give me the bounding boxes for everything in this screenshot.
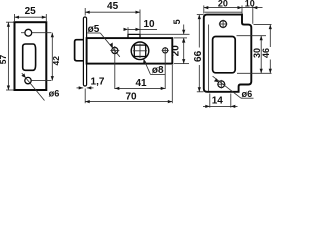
stop tab on top of case	[128, 34, 140, 38]
strike plate outline	[204, 15, 252, 92]
latch case body	[87, 38, 173, 64]
dimension 57 (left height)	[0, 22, 14, 90]
svg-text:25: 25	[25, 6, 37, 17]
dimension 45 (backset)	[85, 1, 140, 34]
svg-text:20: 20	[171, 45, 182, 57]
dimension 66 (strike height)	[193, 15, 204, 92]
svg-text:ø6: ø6	[242, 89, 253, 99]
ø5 crosshair	[110, 46, 119, 56]
dimension 25 (top width)	[15, 6, 47, 21]
svg-text:1,7: 1,7	[91, 77, 105, 88]
spindle bore circle ø8	[131, 42, 149, 60]
svg-text:5: 5	[172, 19, 182, 24]
dimension 46 (tongue top to opening bottom)	[254, 25, 272, 74]
bend line vertical	[208, 25, 210, 92]
label ø5 with leader	[87, 24, 120, 57]
dimension 41 (hole spacing)	[115, 54, 165, 90]
bend line top	[205, 11, 243, 13]
svg-text:66: 66	[193, 50, 204, 62]
svg-text:41: 41	[135, 78, 147, 89]
dimension 30 (opening height)	[237, 36, 272, 74]
latch bolt head	[75, 40, 84, 61]
label ø6 (strike)	[242, 89, 253, 99]
dimension 70 (overall length)	[85, 65, 172, 103]
faceplate plate outline	[15, 22, 47, 90]
dimension 10 (tab width)	[124, 19, 158, 34]
bottom screw hole	[217, 80, 226, 89]
spindle crosshair	[133, 44, 147, 58]
top dimensions 20 and 10	[204, 0, 263, 24]
top screw hole	[25, 29, 32, 36]
latch bolt opening	[23, 44, 36, 70]
screw hole ø5	[112, 47, 118, 53]
bottom screw hole	[25, 77, 31, 83]
rear hole crosshair	[162, 47, 169, 54]
label ø6	[49, 89, 60, 99]
top screw hole	[219, 20, 228, 29]
dimension 5 (tab height)	[140, 19, 190, 42]
svg-text:ø5: ø5	[88, 24, 100, 35]
svg-text:14: 14	[212, 95, 224, 106]
dimension 20 (case height)	[171, 38, 189, 64]
dimension 42 (hole to hole)	[51, 33, 62, 81]
svg-text:10: 10	[143, 19, 155, 30]
leader ø6 (strike)	[213, 76, 254, 98]
svg-text:45: 45	[107, 1, 119, 12]
svg-text:46: 46	[261, 48, 271, 58]
svg-text:20: 20	[218, 0, 228, 9]
label ø8 with leader	[143, 59, 165, 76]
faceplate side bar	[83, 17, 86, 86]
dimension 1,7 (faceplate thickness)	[77, 77, 105, 90]
centerline through top screw hole	[21, 32, 51, 34]
svg-text:ø6: ø6	[49, 89, 60, 99]
centerline through bottom screw hole	[32, 80, 52, 82]
svg-text:70: 70	[125, 91, 137, 102]
strike opening	[213, 37, 236, 73]
spindle square hole	[134, 45, 145, 56]
svg-text:42: 42	[51, 56, 61, 66]
svg-text:57: 57	[0, 55, 8, 65]
rear screw hole	[163, 48, 168, 53]
svg-text:10: 10	[245, 0, 255, 9]
leader ø6	[21, 73, 44, 100]
dimension 14 (bottom hole offset)	[203, 94, 238, 109]
